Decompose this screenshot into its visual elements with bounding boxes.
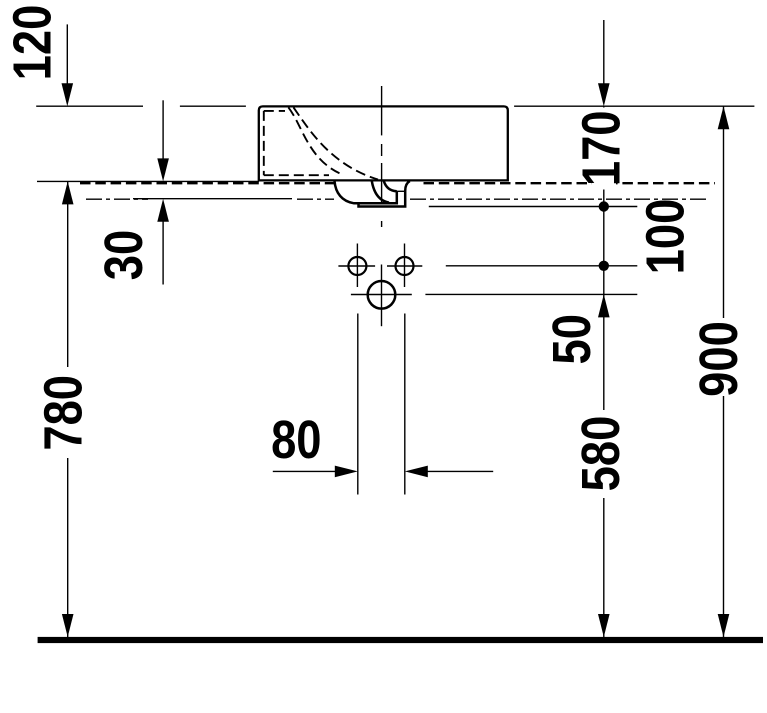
- svg-text:50: 50: [541, 314, 602, 364]
- svg-text:120: 120: [2, 5, 63, 81]
- svg-text:780: 780: [33, 375, 94, 451]
- svg-text:80: 80: [271, 409, 321, 470]
- svg-text:900: 900: [689, 321, 750, 397]
- svg-text:30: 30: [94, 230, 155, 280]
- svg-text:580: 580: [570, 416, 631, 492]
- svg-text:170: 170: [571, 110, 632, 186]
- svg-text:100: 100: [635, 199, 696, 275]
